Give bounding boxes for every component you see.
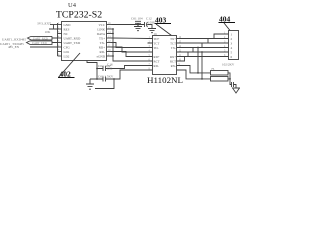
port flag UART_TXD [27,41,58,45]
wire T1 out row2 [182,39,229,44]
pin numbers right [108,22,111,57]
svg-text:RCT: RCT [154,60,160,64]
connector 404 left stubs [224,34,229,57]
wire CFG row [30,46,58,48]
svg-text:485_EN: 485_EN [8,45,20,49]
svg-text:C61 104: C61 104 [131,17,143,21]
svg-text:RX+: RX+ [170,55,176,59]
wire T1 row8 to termination [182,70,211,79]
svg-text:16: 16 [154,32,158,36]
wire T1 out row6 [182,57,229,62]
junction drop B bottom [201,78,203,80]
svg-text:eGND: eGND [97,54,106,58]
svg-text:C81: C81 [107,66,113,70]
wire TX+ to T1 p1 [112,37,148,40]
capacitor C63 [90,70,148,82]
capacitor HV plates [232,82,237,88]
pin NC stub [58,33,63,35]
svg-text:CFG: CFG [64,45,71,49]
capacitor C62 [97,66,148,72]
pin TX+ stub [107,37,112,39]
resistor R62 [211,77,229,82]
junction drop A top [197,47,199,49]
svg-text:VCC: VCC [98,23,105,27]
transformer pin numbers [149,36,182,71]
wire drop pair A [197,48,199,73]
junction cap2 left [96,78,98,80]
wire T1 out row3 [182,43,229,48]
svg-text:TCT: TCT [170,42,176,46]
svg-text:TX+: TX+ [170,37,176,41]
svg-text:C63 1.5KV: C63 1.5KV [98,74,114,78]
resistor R61 [211,71,229,76]
pin VCC stub [107,24,112,26]
wire chip bottom pin jog [87,61,97,80]
wire VCC to caps [112,24,145,26]
wire termination join [228,73,232,85]
wire T1 out row4 [182,48,229,53]
ground below C61 node [134,25,142,31]
junction cap1 left [96,68,98,70]
pin DATA stub [107,33,114,35]
svg-text:TD-: TD- [154,46,159,50]
transformer right pin stubs [177,39,182,71]
chassis ground arrow [233,88,240,93]
svg-text:UART_TXD: UART_TXD [64,41,81,45]
svg-text:LD2: LD2 [64,54,70,58]
vertical LED bus [113,29,148,61]
svg-text:RD+: RD+ [99,45,105,49]
pin numbers left [58,22,60,57]
pin CFG stub [58,46,63,48]
pin LINK stub [107,28,114,30]
svg-text:102/2KV: 102/2KV [222,63,235,67]
svg-text:TX+: TX+ [99,36,105,40]
ground below C13 [148,29,156,33]
junction eGND [112,55,114,57]
svg-text:10K: 10K [45,30,51,34]
svg-text:TD+: TD+ [154,37,160,41]
leader 404 [224,23,230,31]
junction drop B top [201,51,203,53]
svg-text:LINK: LINK [97,27,105,31]
capacitor C13 polarized [145,22,153,29]
wire T1 row7 to termination [182,66,211,73]
svg-text:3V3_EXT: 3V3_EXT [37,22,52,26]
wire left pin bus [57,23,59,56]
wire ground drop [89,79,91,84]
connector 404 stub numbers [224,31,226,57]
junction drop A bottom [197,72,199,74]
pin LD1 stub [58,51,63,53]
pin eGND stub [107,55,114,57]
svg-text:RD+: RD+ [154,55,160,59]
connector 404 pin numbers [231,32,233,59]
pin GND stub [58,24,63,26]
transformer T1 body [153,36,177,75]
svg-text:U4: U4 [68,2,77,9]
underline 404 [219,22,236,24]
pin UART_TXD stub [58,42,63,44]
svg-text:RES: RES [64,27,70,31]
pin RD- stub [107,51,112,53]
ground bottom middle [86,84,94,89]
pin RD+ stub [107,46,112,48]
pin UART_RXD stub [58,37,63,39]
wire RD- jog to T1 p5 [112,52,148,57]
junction LINK [112,28,114,30]
junction bottom [113,78,115,80]
wire drop pair B [201,52,203,79]
pin labels right column [97,23,106,59]
svg-text:NC: NC [64,32,68,36]
pin labels left column [64,23,82,59]
svg-text:RD-: RD- [154,64,159,68]
pin TX- stub [107,42,112,44]
svg-text:RD-: RD- [100,50,106,54]
wire T1 out row1 [182,34,229,39]
svg-text:H1102NL: H1102NL [147,76,183,85]
leader 403 [156,24,172,36]
underline 403 [155,23,172,25]
underline 402 [58,77,75,79]
connector 404 body [229,31,239,60]
svg-text:DATA: DATA [97,32,106,36]
junction VCC node [137,24,139,26]
wire link rows 1-2 [49,25,58,30]
svg-text:UART_RXD: UART_RXD [64,36,82,40]
junction DATA [112,33,114,35]
svg-text:RX-: RX- [171,64,176,68]
svg-text:RCT: RCT [170,60,176,64]
transformer pin labels left [154,37,160,68]
svg-text:TX-: TX- [171,46,176,50]
transformer left pin stubs [148,39,153,71]
svg-text:TX-: TX- [100,41,105,45]
capacitor C61 above wire [135,21,141,24]
junction termination [229,78,231,80]
IC U4 body [62,22,107,61]
svg-text:GND: GND [64,23,72,27]
svg-text:UART_TXD: UART_TXD [32,42,47,45]
wire T1 out row5 [182,52,229,57]
leader 402 [59,53,81,77]
svg-text:LD1: LD1 [64,50,70,54]
wire TX- jog to T1 p3 [112,43,148,48]
wire GND row [50,24,58,26]
svg-text:TCT: TCT [154,42,160,46]
wire bottom run [95,79,114,89]
pin LD2 stub [58,55,63,57]
svg-text:UART_RXD: UART_RXD [33,37,48,40]
wire RD+ jog to T1 p4 [112,47,148,52]
port flag UART_RXD [28,36,58,40]
transformer pin labels right [170,37,176,68]
svg-text:TCP232-S2: TCP232-S2 [56,9,102,20]
pin RES stub [58,28,63,30]
